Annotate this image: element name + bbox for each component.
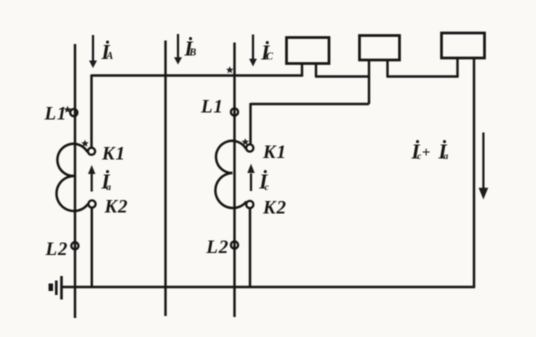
svg-text:İA: İA — [101, 40, 114, 64]
svg-text:İc: İc — [411, 140, 423, 164]
svg-text:L1: L1 — [44, 104, 68, 125]
svg-text:K2: K2 — [104, 197, 129, 218]
svg-text:İC: İC — [260, 40, 274, 64]
svg-text:+: + — [422, 145, 431, 161]
svg-text:İa: İa — [101, 170, 112, 194]
svg-text:L2: L2 — [45, 239, 69, 260]
svg-text:K1: K1 — [101, 144, 126, 165]
svg-text:K1: K1 — [262, 142, 287, 163]
svg-text:İB: İB — [184, 37, 197, 61]
svg-text:İa: İa — [438, 140, 449, 164]
svg-text:K2: K2 — [262, 198, 287, 219]
svg-text:İc: İc — [258, 170, 269, 194]
svg-text:L2: L2 — [205, 237, 229, 258]
svg-text:L1: L1 — [200, 97, 224, 118]
